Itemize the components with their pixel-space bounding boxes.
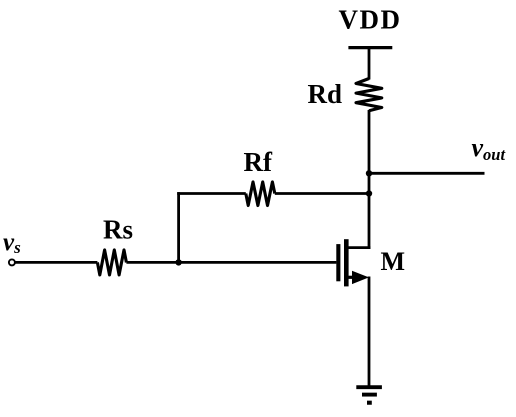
wire Rd to drain <box>368 110 371 249</box>
wire vout <box>369 172 485 175</box>
wire Rf left segment <box>177 192 246 195</box>
transistor M channel bar <box>344 239 349 286</box>
node vout junction <box>366 170 372 176</box>
wire Rf right segment <box>275 192 369 195</box>
transistor M source stub <box>349 276 354 279</box>
ground bar 1 <box>356 385 382 389</box>
svg-text:Rf: Rf <box>244 147 273 177</box>
svg-text:Rd: Rd <box>307 79 342 109</box>
ground bar 3 <box>367 401 372 405</box>
transistor M source arrow <box>352 271 369 284</box>
wire Rs to gate <box>126 261 336 264</box>
ground bar 2 <box>362 393 377 397</box>
wire feedback vertical <box>177 192 180 262</box>
transistor M drain stub <box>349 246 371 249</box>
wire VDD bar to Rd <box>368 48 371 80</box>
terminal vs <box>9 259 15 265</box>
svg-text:M: M <box>381 247 406 276</box>
svg-text:Rs: Rs <box>103 215 133 245</box>
wire source to ground <box>368 277 371 388</box>
node Rf junction <box>366 190 372 196</box>
transistor M gate bar <box>336 244 340 281</box>
svg-text:VDD: VDD <box>339 5 402 35</box>
svg-text:vs: vs <box>3 229 21 257</box>
svg-text:vout: vout <box>472 133 506 164</box>
node gate junction <box>175 259 181 265</box>
wire vs to Rs <box>15 261 97 264</box>
resistor Rf <box>246 182 275 206</box>
resistor Rd <box>356 79 382 111</box>
resistor Rs <box>97 250 126 275</box>
power rail VDD bar <box>348 46 392 49</box>
